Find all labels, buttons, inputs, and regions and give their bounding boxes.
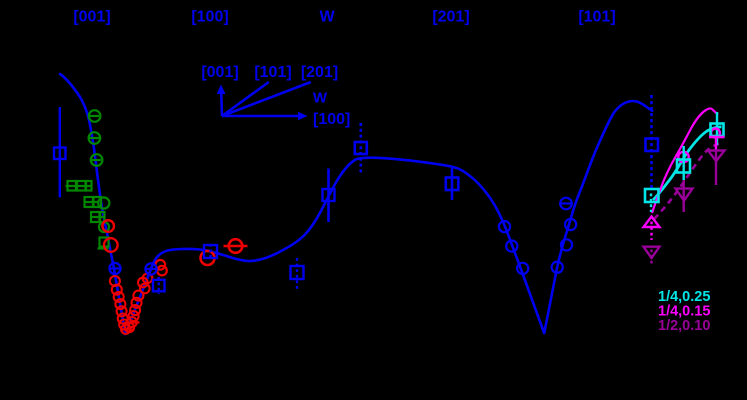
purple error bar x716: [715, 150, 717, 185]
magenta error bar cap x716: [709, 136, 725, 139]
svg-text:W: W: [313, 90, 328, 107]
purple down-triangle marker x716: [708, 151, 725, 162]
svg-text:[201]: [201]: [432, 9, 469, 26]
red circle marker b: [104, 238, 118, 252]
svg-text:[101]: [101]: [578, 9, 615, 26]
svg-text:[101]: [101]: [254, 64, 291, 81]
magenta circle behind cyan square x684: [678, 152, 688, 162]
main blue dispersion curve: [60, 74, 652, 334]
svg-text:[100]: [100]: [313, 111, 350, 128]
magenta error bar x716: [715, 137, 717, 150]
blue dotted vertical line x651: [650, 95, 653, 188]
blue circles second dip right branch: [552, 219, 577, 273]
blue square marker at W: [355, 142, 367, 154]
purple dotted bar below down-triangle x651: [650, 250, 652, 267]
blue circle with bar on second dip right branch: [560, 198, 573, 210]
purple dashed curve: [654, 144, 721, 220]
cyan square marker x717: [711, 124, 724, 137]
svg-text:[001]: [001]: [73, 9, 110, 26]
red circle with horizontal error bar x236: [224, 239, 248, 253]
blue square marker x651: [646, 139, 659, 152]
purple error bar x684: [683, 180, 685, 212]
green square with bottom bar: [98, 238, 109, 249]
green circle marker 3: [91, 154, 103, 166]
svg-text:[201]: [201]: [301, 64, 338, 81]
red circle right of blue circles: [156, 260, 166, 270]
blue square marker x297 with dotted bar: [291, 258, 304, 291]
cyan error bar x717: [716, 112, 718, 145]
svg-text:[100]: [100]: [191, 9, 228, 26]
cyan dotted error bar below square x651: [650, 194, 652, 213]
blue square marker x161: [153, 277, 165, 294]
red circle near x207: [201, 251, 215, 265]
blue square marker x328 with solid error bar: [323, 169, 335, 223]
red circles right branch of first dip: [125, 274, 152, 333]
green square row (three squares with error bar): [66, 181, 93, 191]
red circles left branch of first dip: [110, 276, 130, 334]
purple down-triangle marker x651: [644, 247, 660, 258]
green circle marker 1: [89, 110, 101, 122]
cyan square marker x651: [645, 189, 659, 202]
green square pair row 3: [91, 212, 110, 232]
svg-text:W: W: [319, 9, 335, 26]
purple down-triangle marker x684: [676, 189, 693, 201]
magenta solid curve: [652, 108, 718, 213]
cyan solid curve: [653, 127, 722, 200]
magenta circle behind square x716: [711, 129, 720, 138]
blue circle with bar left of dip: [109, 263, 122, 274]
inset vertical arrow [001]: [217, 85, 226, 117]
W dotted vertical line: [359, 123, 362, 174]
green square pair with circle: [84, 197, 109, 209]
inset horizontal arrow [100]: [222, 112, 308, 121]
blue square marker x452 with error bar: [446, 168, 459, 200]
magenta dotted bar below triangle x651: [650, 222, 652, 241]
red error bar at dip bottom: [121, 328, 134, 330]
svg-text:1/2,0.10: 1/2,0.10: [658, 318, 710, 334]
red circle marker a: [102, 220, 114, 232]
red circle second near 162: [157, 266, 167, 276]
blue error bar far left: [59, 107, 61, 198]
blue circle with bar right of dip: [145, 263, 156, 274]
inset diagonal line to [101]: [222, 82, 269, 116]
blue square marker x211 with dotted bar: [204, 244, 217, 260]
cyan square marker x684: [677, 160, 690, 173]
cyan error bar x684: [683, 146, 685, 180]
green circle marker 2: [89, 132, 101, 144]
svg-text:[001]: [001]: [201, 64, 238, 81]
inset diagonal line to [201]: [222, 82, 311, 116]
red error bar near dip bottom: [127, 321, 140, 323]
blue circles on second dip left branch: [499, 221, 528, 274]
blue square marker on far-left error bar: [54, 148, 66, 160]
magenta up-triangle marker x651: [644, 217, 660, 228]
